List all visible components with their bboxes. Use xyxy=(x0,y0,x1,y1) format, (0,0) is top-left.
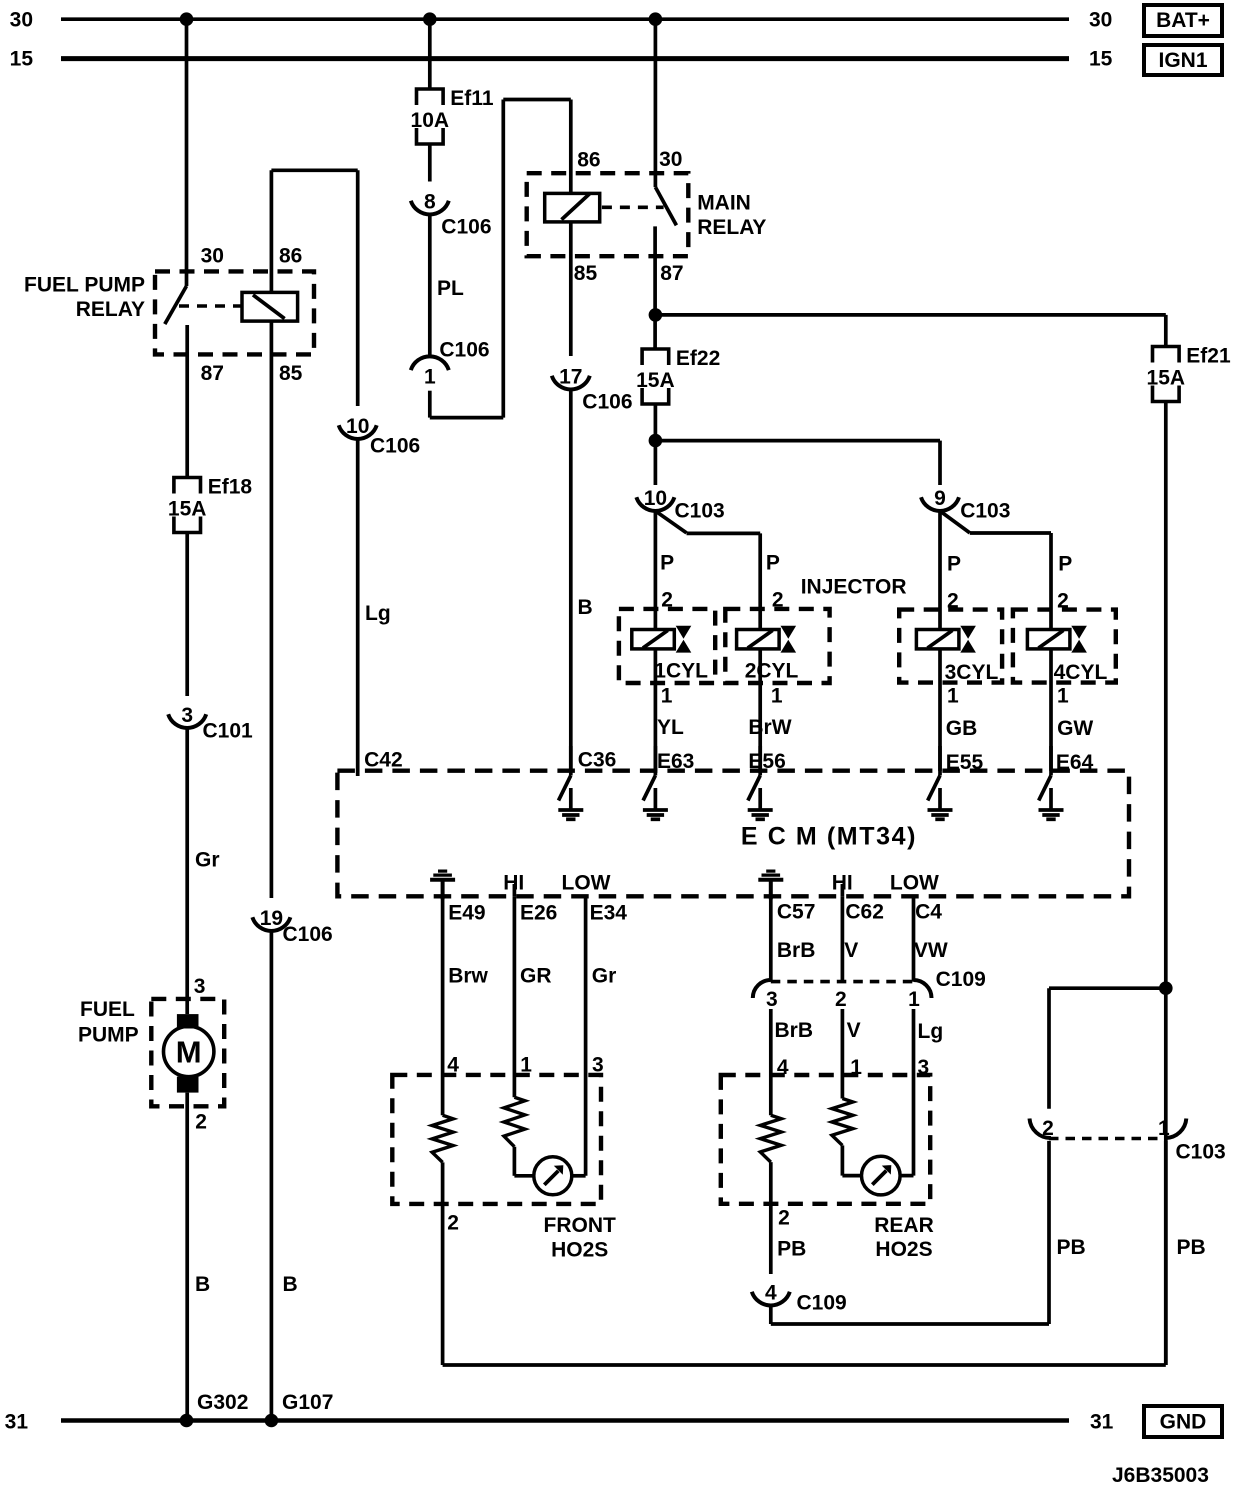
svg-text:86: 86 xyxy=(577,149,600,172)
svg-text:C106: C106 xyxy=(582,391,632,414)
svg-text:17: 17 xyxy=(559,366,582,389)
svg-text:2CYL: 2CYL xyxy=(745,660,799,683)
svg-text:V: V xyxy=(847,1019,861,1042)
svg-text:C106: C106 xyxy=(439,338,489,361)
svg-text:1: 1 xyxy=(1158,1117,1170,1140)
svg-text:HO2S: HO2S xyxy=(551,1239,608,1262)
svg-text:Brw: Brw xyxy=(448,964,488,987)
svg-text:RELAY: RELAY xyxy=(697,216,766,239)
svg-text:3: 3 xyxy=(181,704,193,727)
svg-text:C106: C106 xyxy=(370,435,420,458)
svg-text:C4: C4 xyxy=(915,901,942,924)
svg-text:3: 3 xyxy=(766,988,778,1011)
svg-text:GR: GR xyxy=(520,964,552,987)
svg-text:C36: C36 xyxy=(578,749,617,772)
svg-text:8: 8 xyxy=(424,191,436,214)
svg-text:Lg: Lg xyxy=(918,1020,944,1043)
svg-text:P: P xyxy=(947,553,961,576)
svg-text:4: 4 xyxy=(765,1282,777,1305)
svg-text:RELAY: RELAY xyxy=(76,298,145,321)
svg-text:C57: C57 xyxy=(777,901,816,924)
svg-text:Gr: Gr xyxy=(195,849,220,872)
svg-text:15A: 15A xyxy=(636,369,675,392)
svg-text:30: 30 xyxy=(10,9,33,32)
svg-text:3: 3 xyxy=(194,975,206,998)
svg-text:FUEL: FUEL xyxy=(80,998,135,1021)
svg-text:M: M xyxy=(176,1035,202,1070)
svg-text:HO2S: HO2S xyxy=(875,1238,932,1261)
svg-text:GW: GW xyxy=(1057,717,1093,740)
svg-text:VW: VW xyxy=(914,939,948,962)
svg-text:2: 2 xyxy=(1042,1117,1054,1140)
svg-text:1CYL: 1CYL xyxy=(654,660,708,683)
svg-text:C106: C106 xyxy=(283,923,333,946)
svg-text:LOW: LOW xyxy=(890,872,939,895)
svg-text:PB: PB xyxy=(1177,1236,1206,1259)
svg-text:PUMP: PUMP xyxy=(78,1024,139,1047)
svg-text:BrB: BrB xyxy=(775,1019,814,1042)
svg-text:C62: C62 xyxy=(845,901,884,924)
svg-text:BrB: BrB xyxy=(777,939,816,962)
svg-text:10: 10 xyxy=(644,487,667,510)
svg-text:31: 31 xyxy=(5,1410,29,1433)
svg-text:2: 2 xyxy=(835,988,847,1011)
svg-text:FRONT: FRONT xyxy=(544,1214,616,1237)
svg-text:V: V xyxy=(844,939,858,962)
svg-text:GB: GB xyxy=(946,717,978,740)
svg-text:Ef18: Ef18 xyxy=(208,476,253,499)
svg-text:G107: G107 xyxy=(282,1391,333,1414)
svg-text:10A: 10A xyxy=(411,109,450,132)
svg-text:30: 30 xyxy=(1089,9,1112,32)
svg-text:C109: C109 xyxy=(936,968,986,991)
svg-text:B: B xyxy=(283,1273,298,1296)
svg-text:2: 2 xyxy=(195,1111,207,1134)
svg-text:85: 85 xyxy=(574,262,598,285)
svg-text:REAR: REAR xyxy=(874,1214,934,1237)
svg-text:9: 9 xyxy=(934,487,946,510)
svg-text:C101: C101 xyxy=(203,720,254,743)
svg-text:HI: HI xyxy=(503,872,524,895)
svg-text:E C M (MT34): E C M (MT34) xyxy=(741,823,917,851)
svg-text:Gr: Gr xyxy=(592,964,617,987)
svg-text:PL: PL xyxy=(437,277,464,300)
svg-text:86: 86 xyxy=(279,244,302,267)
svg-text:C103: C103 xyxy=(960,499,1010,522)
svg-text:E26: E26 xyxy=(520,902,557,925)
svg-text:YL: YL xyxy=(657,716,684,739)
svg-text:15A: 15A xyxy=(168,498,207,521)
svg-text:C106: C106 xyxy=(441,216,491,239)
svg-text:1: 1 xyxy=(908,988,920,1011)
svg-text:31: 31 xyxy=(1090,1410,1114,1433)
svg-text:P: P xyxy=(1058,553,1072,576)
svg-text:C103: C103 xyxy=(675,500,725,523)
svg-text:Lg: Lg xyxy=(365,602,391,625)
svg-text:MAIN: MAIN xyxy=(697,192,751,215)
svg-text:B: B xyxy=(578,596,593,619)
svg-text:19: 19 xyxy=(260,907,283,930)
svg-text:1: 1 xyxy=(771,685,783,708)
svg-text:HI: HI xyxy=(832,872,853,895)
svg-text:PB: PB xyxy=(1057,1236,1086,1259)
svg-text:15: 15 xyxy=(1089,47,1113,70)
svg-text:4CYL: 4CYL xyxy=(1054,661,1108,684)
svg-text:P: P xyxy=(766,551,780,574)
svg-text:15: 15 xyxy=(10,47,34,70)
svg-text:Ef21: Ef21 xyxy=(1186,345,1231,368)
svg-text:E34: E34 xyxy=(590,902,628,925)
svg-text:INJECTOR: INJECTOR xyxy=(801,576,907,599)
svg-text:P: P xyxy=(660,551,674,574)
svg-text:C103: C103 xyxy=(1176,1141,1226,1164)
svg-text:1: 1 xyxy=(661,685,673,708)
svg-text:LOW: LOW xyxy=(562,872,611,895)
svg-text:2: 2 xyxy=(778,1207,790,1230)
svg-text:30: 30 xyxy=(201,244,224,267)
svg-text:15A: 15A xyxy=(1147,367,1186,390)
svg-text:IGN1: IGN1 xyxy=(1158,49,1207,72)
svg-text:J6B35003: J6B35003 xyxy=(1112,1464,1209,1487)
svg-text:G302: G302 xyxy=(197,1391,248,1414)
svg-text:Ef22: Ef22 xyxy=(676,347,720,370)
svg-text:87: 87 xyxy=(660,262,683,285)
svg-text:2: 2 xyxy=(447,1212,459,1235)
svg-text:GND: GND xyxy=(1160,1410,1207,1433)
svg-text:1: 1 xyxy=(947,685,959,708)
svg-text:PB: PB xyxy=(777,1237,806,1260)
svg-text:Ef11: Ef11 xyxy=(450,87,494,110)
svg-text:BrW: BrW xyxy=(748,716,791,739)
svg-text:E49: E49 xyxy=(448,902,485,925)
svg-text:1: 1 xyxy=(424,365,436,388)
svg-text:10: 10 xyxy=(346,415,369,438)
svg-text:30: 30 xyxy=(659,148,682,171)
svg-text:3CYL: 3CYL xyxy=(945,661,999,684)
svg-text:87: 87 xyxy=(201,362,224,385)
svg-text:1: 1 xyxy=(1057,685,1069,708)
svg-text:C42: C42 xyxy=(364,749,403,772)
svg-text:85: 85 xyxy=(279,362,303,385)
svg-text:C109: C109 xyxy=(797,1292,847,1315)
svg-text:BAT+: BAT+ xyxy=(1156,9,1210,32)
svg-text:B: B xyxy=(195,1273,210,1296)
svg-text:FUEL PUMP: FUEL PUMP xyxy=(24,274,145,297)
